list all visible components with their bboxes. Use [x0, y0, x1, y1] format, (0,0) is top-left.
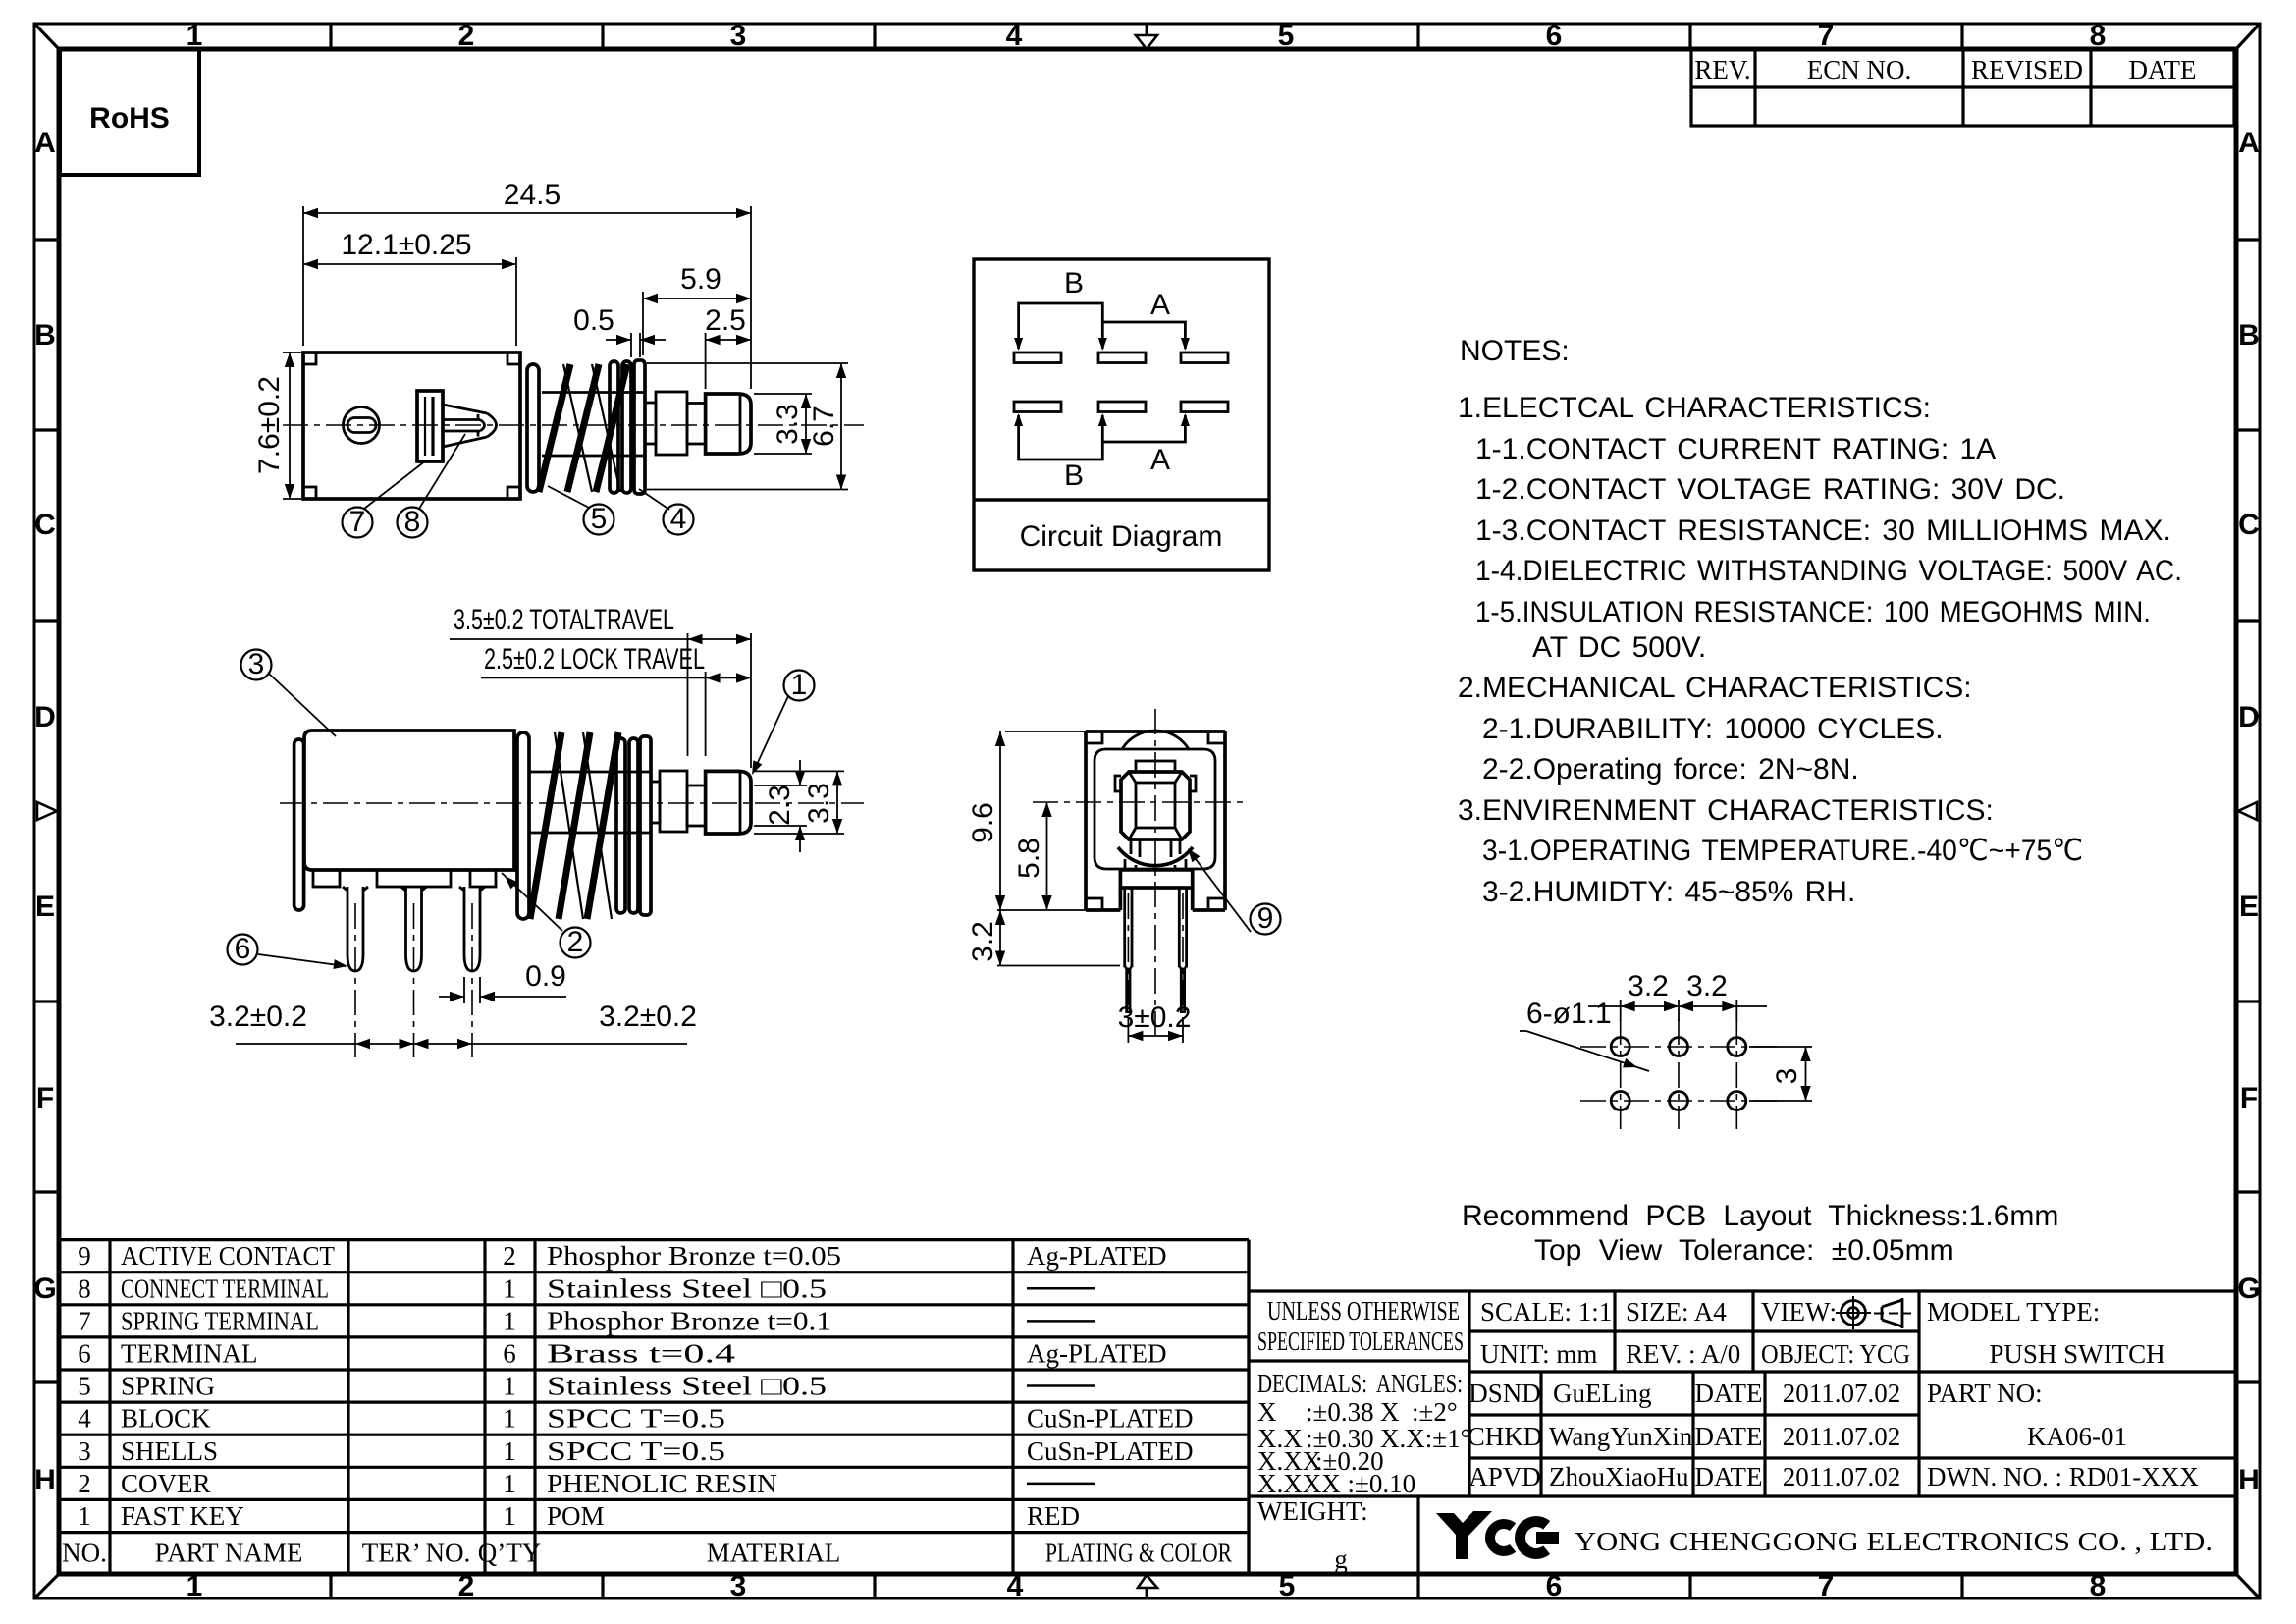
svg-text:9.6: 9.6	[967, 802, 999, 843]
svg-text:3.5±0.2 TOTALTRAVEL: 3.5±0.2 TOTALTRAVEL	[454, 604, 674, 636]
svg-text:A: A	[34, 127, 56, 159]
view 3 active contact arc (part 9)	[1118, 847, 1193, 866]
svg-text:FAST KEY: FAST KEY	[121, 1501, 244, 1531]
svg-text:VIEW:: VIEW:	[1761, 1297, 1837, 1326]
ref 2 cover leader	[561, 928, 591, 958]
svg-text:B: B	[2238, 319, 2260, 352]
svg-text:SPRING: SPRING	[121, 1372, 215, 1401]
BOM table grid	[59, 1240, 1249, 1574]
svg-text:7: 7	[1818, 1570, 1835, 1602]
svg-text:NO.: NO.	[62, 1539, 107, 1568]
svg-text:1.ELECTCAL CHARACTERISTICS:: 1.ELECTCAL CHARACTERISTICS:	[1458, 392, 1931, 424]
view 3 horizontal centerline	[1033, 801, 1247, 803]
svg-text:DSND: DSND	[1468, 1379, 1541, 1408]
svg-text:1: 1	[503, 1273, 516, 1303]
view 1 shaft hub	[645, 392, 706, 455]
view 3 corner marks	[1086, 731, 1225, 910]
svg-text:MATERIAL: MATERIAL	[707, 1539, 841, 1568]
view 1 shaft neck	[687, 404, 706, 445]
notes text block	[1458, 335, 2182, 908]
pcb recommendation text	[1462, 1200, 2058, 1267]
svg-text:C: C	[34, 509, 56, 541]
svg-text:7.6±0.2: 7.6±0.2	[253, 376, 286, 474]
svg-text:8: 8	[2090, 20, 2107, 52]
svg-text:1-1.CONTACT CURRENT RATING:: 1-1.CONTACT CURRENT RATING: 1A	[1475, 433, 1996, 465]
view 3 pins	[1125, 888, 1187, 1013]
svg-text:2: 2	[503, 1241, 516, 1271]
circuit diagram box	[974, 259, 1269, 570]
svg-text:3: 3	[78, 1436, 91, 1466]
svg-text:2: 2	[458, 20, 475, 52]
svg-text:E: E	[35, 891, 55, 923]
view 2 shaft hub	[651, 771, 706, 832]
svg-text:1-5.INSULATION RESISTANCE: 1: 1-5.INSULATION RESISTANCE: 100 MEGOHMS M…	[1475, 596, 2151, 628]
svg-text:X: X	[1380, 1397, 1400, 1427]
ref 5 spring leader	[584, 505, 614, 535]
svg-text:3-1.OPERATING TEMPERATURE.-40: 3-1.OPERATING TEMPERATURE.-40℃~+75℃	[1482, 835, 2083, 867]
svg-text:5: 5	[591, 503, 608, 535]
svg-text:POM: POM	[547, 1501, 605, 1531]
svg-text:SPRING TERMINAL: SPRING TERMINAL	[121, 1306, 319, 1335]
svg-text:G: G	[2237, 1272, 2260, 1305]
svg-text:ANGLES:: ANGLES:	[1376, 1369, 1463, 1398]
wire A top	[1102, 322, 1185, 349]
svg-text:PART NAME: PART NAME	[155, 1539, 303, 1568]
svg-text:9: 9	[1257, 902, 1274, 935]
svg-text:1: 1	[503, 1469, 516, 1498]
svg-text:8: 8	[78, 1273, 91, 1303]
svg-text:UNLESS OTHERWISE: UNLESS OTHERWISE	[1267, 1296, 1460, 1326]
svg-text:SPECIFIED TOLERANCES: SPECIFIED TOLERANCES	[1257, 1326, 1464, 1356]
centering mark bottom	[1138, 1575, 1157, 1598]
svg-text:4: 4	[1006, 20, 1023, 52]
svg-text:F: F	[2240, 1082, 2258, 1114]
svg-text:5: 5	[78, 1372, 91, 1401]
svg-text:3.3: 3.3	[803, 783, 835, 824]
view 3 button inner	[1136, 783, 1175, 828]
svg-text:TERMINAL: TERMINAL	[121, 1338, 257, 1368]
svg-text:3.2±0.2: 3.2±0.2	[209, 1001, 307, 1033]
svg-text:CONNECT TERMINAL: CONNECT TERMINAL	[121, 1273, 329, 1303]
svg-text:PUSH SWITCH: PUSH SWITCH	[1989, 1339, 2164, 1369]
svg-text:2011.07.02: 2011.07.02	[1783, 1422, 1901, 1451]
view 1 switch body (shells)	[303, 352, 520, 499]
svg-text:6: 6	[78, 1338, 91, 1368]
svg-text:NOTES:: NOTES:	[1460, 335, 1570, 367]
svg-text:RED: RED	[1027, 1501, 1080, 1531]
svg-text:Phosphor Bronze t=0.1: Phosphor Bronze t=0.1	[547, 1306, 831, 1335]
view 3 pedestal	[1120, 870, 1192, 888]
svg-text:DATE: DATE	[1695, 1422, 1763, 1451]
svg-text:3.2: 3.2	[1686, 970, 1728, 1002]
svg-text:Q’TY: Q’TY	[478, 1539, 541, 1568]
svg-text:8: 8	[2090, 1570, 2107, 1602]
svg-text:DATE: DATE	[1695, 1462, 1763, 1491]
svg-text:3.2: 3.2	[1628, 970, 1669, 1002]
svg-text:DWN. NO. : RD01-XXX: DWN. NO. : RD01-XXX	[1927, 1462, 2199, 1491]
svg-text:COVER: COVER	[121, 1469, 211, 1498]
contact pads row 2	[1014, 402, 1228, 412]
svg-text:2: 2	[567, 926, 584, 958]
svg-text:7: 7	[349, 506, 366, 538]
revision table	[1691, 49, 2234, 126]
svg-text:CuSn-PLATED: CuSn-PLATED	[1027, 1404, 1194, 1434]
svg-text:D: D	[34, 701, 56, 733]
svg-text:4: 4	[670, 503, 687, 535]
svg-text:PHENOLIC RESIN: PHENOLIC RESIN	[547, 1469, 777, 1498]
svg-text:1: 1	[503, 1436, 516, 1466]
view 2 push button	[706, 771, 751, 834]
svg-text:1-4.DIELECTRIC WITHSTANDING: 1-4.DIELECTRIC WITHSTANDING VOLTAGE: 500…	[1475, 555, 2182, 587]
svg-text:6: 6	[1546, 1570, 1563, 1602]
svg-text:5: 5	[1278, 20, 1295, 52]
view cone symbol	[1874, 1298, 1911, 1328]
svg-text:OBJECT: YCG: OBJECT: YCG	[1761, 1339, 1910, 1369]
wire A bottom	[1102, 415, 1185, 442]
svg-text:ACTIVE CONTACT: ACTIVE CONTACT	[121, 1241, 335, 1271]
view 3 button side ears	[1115, 776, 1121, 791]
svg-text:UNIT: mm: UNIT: mm	[1480, 1339, 1597, 1369]
centering mark left	[37, 802, 57, 820]
svg-text:B: B	[34, 319, 56, 352]
svg-text:5.9: 5.9	[680, 263, 721, 296]
svg-text:WEIGHT:: WEIGHT:	[1257, 1496, 1368, 1526]
svg-text:6: 6	[1546, 20, 1563, 52]
svg-text:3.2±0.2: 3.2±0.2	[599, 1001, 697, 1033]
svg-text:PART NO:: PART NO:	[1927, 1379, 2043, 1408]
view 2 cover plate (part 2)	[294, 739, 304, 910]
view 2 centerline	[280, 802, 864, 804]
svg-text:12.1±0.25: 12.1±0.25	[341, 229, 471, 261]
wire B bottom	[1019, 415, 1103, 460]
title block grid	[1249, 1240, 2236, 1574]
svg-text:24.5: 24.5	[504, 179, 561, 211]
svg-text:0.9: 0.9	[525, 960, 566, 993]
svg-text:1: 1	[503, 1404, 516, 1434]
svg-text:5.8: 5.8	[1013, 838, 1045, 879]
view 1 spring (part 5)	[539, 364, 646, 492]
view 3 body outline	[1086, 731, 1225, 910]
pcb holes	[1611, 1038, 1746, 1110]
third-angle symbol	[1836, 1296, 1871, 1329]
view 2 spring washer left	[517, 732, 529, 919]
svg-text:6: 6	[235, 933, 251, 965]
svg-text:SHELLS: SHELLS	[121, 1436, 218, 1466]
svg-text:Phosphor Bronze t=0.05: Phosphor Bronze t=0.05	[547, 1241, 841, 1271]
svg-text:C: C	[2238, 509, 2260, 541]
view 2 spring	[530, 732, 650, 919]
wire B top	[1019, 303, 1103, 349]
svg-text:3: 3	[1771, 1068, 1803, 1085]
view 1 push button	[706, 394, 751, 454]
svg-text:X: X	[1257, 1397, 1277, 1427]
svg-text:REVISED: REVISED	[1971, 55, 2083, 84]
view 2 shaft neck	[687, 785, 706, 826]
svg-text:B: B	[1064, 460, 1084, 492]
svg-text:H: H	[2238, 1464, 2260, 1496]
svg-text:2.MECHANICAL CHARACTERISTICS:: 2.MECHANICAL CHARACTERISTICS:	[1458, 672, 1972, 704]
svg-text:CHKD: CHKD	[1468, 1422, 1543, 1451]
svg-text:X.XXX :±0.10: X.XXX :±0.10	[1257, 1469, 1415, 1498]
svg-text:1: 1	[78, 1501, 91, 1531]
svg-text:Top View Tolerance: ±0.05m: Top View Tolerance: ±0.05mm	[1534, 1234, 1954, 1267]
svg-text:2: 2	[78, 1469, 91, 1498]
svg-text:D: D	[2238, 701, 2260, 733]
svg-text:SIZE: A4: SIZE: A4	[1626, 1297, 1727, 1326]
svg-text:Ag-PLATED: Ag-PLATED	[1027, 1338, 1167, 1368]
svg-text:3: 3	[730, 20, 747, 52]
view 2 terminals (part 6)	[343, 887, 368, 971]
svg-text:SPCC T=0.5: SPCC T=0.5	[547, 1404, 725, 1434]
svg-text:1-2.CONTACT VOLTAGE RATING:: 1-2.CONTACT VOLTAGE RATING: 30V DC.	[1475, 473, 2065, 506]
svg-text:DECIMALS:: DECIMALS:	[1257, 1369, 1367, 1398]
svg-text:WangYunXin: WangYunXin	[1549, 1422, 1693, 1451]
svg-text:8: 8	[404, 506, 421, 538]
svg-text:3.3: 3.3	[772, 404, 804, 445]
svg-text:MODEL TYPE:: MODEL TYPE:	[1927, 1297, 2100, 1326]
view 3 contact fins	[1125, 859, 1186, 870]
svg-text::±2°: :±2°	[1412, 1397, 1458, 1427]
svg-text:6-ø1.1: 6-ø1.1	[1526, 998, 1612, 1030]
svg-text:1-3.CONTACT RESISTANCE: 30: 1-3.CONTACT RESISTANCE: 30 MILLIOHMS MAX…	[1475, 514, 2171, 547]
svg-text:1: 1	[503, 1306, 516, 1335]
svg-text:1: 1	[503, 1372, 516, 1401]
centering mark top	[1136, 24, 1157, 49]
svg-text:g: g	[1334, 1544, 1348, 1574]
svg-text:2.5±0.2 LOCK TRAVEL: 2.5±0.2 LOCK TRAVEL	[484, 643, 705, 676]
svg-text:Stainless Steel □0.5: Stainless Steel □0.5	[547, 1372, 827, 1401]
svg-text:GuELing: GuELing	[1553, 1379, 1652, 1408]
svg-text::±0.38: :±0.38	[1306, 1397, 1374, 1427]
svg-text:REV. : A/0: REV. : A/0	[1626, 1339, 1740, 1369]
view 2 washer stack	[616, 736, 651, 915]
svg-text:ECN NO.: ECN NO.	[1807, 55, 1912, 84]
view 3 button outer	[1121, 772, 1190, 839]
svg-text:6.7: 6.7	[808, 406, 840, 447]
view 3 pin centerlines	[1127, 893, 1129, 1013]
svg-text:CuSn-PLATED: CuSn-PLATED	[1027, 1436, 1194, 1466]
view 3 button top tab	[1136, 761, 1175, 772]
ref 6 terminal leader	[228, 935, 258, 965]
svg-text:2.5: 2.5	[705, 304, 746, 337]
svg-text:F: F	[36, 1082, 54, 1114]
svg-text:YONG CHENGGONG ELECTRONICS: YONG CHENGGONG ELECTRONICS CO. , LTD.	[1575, 1527, 2213, 1556]
ref 9 active contact leader	[1251, 904, 1281, 935]
svg-text:SCALE: 1:1: SCALE: 1:1	[1480, 1297, 1612, 1326]
svg-text:TER’ NO.: TER’ NO.	[362, 1539, 470, 1568]
svg-text:REV.: REV.	[1694, 55, 1750, 84]
view 1 body corner marks	[303, 352, 520, 499]
svg-text:A: A	[1150, 289, 1170, 321]
ref 4 block leader	[664, 505, 694, 535]
svg-text:2011.07.02: 2011.07.02	[1783, 1462, 1901, 1491]
svg-text:E: E	[2239, 891, 2259, 923]
view 1 centerline	[283, 424, 864, 426]
svg-text:3.ENVIRENMENT CHARACTERISTICS: 3.ENVIRENMENT CHARACTERISTICS:	[1458, 794, 1994, 827]
svg-text:Brass t=0.4: Brass t=0.4	[547, 1338, 736, 1368]
svg-text:A: A	[2238, 127, 2260, 159]
svg-text:G: G	[33, 1272, 56, 1305]
svg-text:PLATING & COLOR: PLATING & COLOR	[1045, 1539, 1232, 1568]
svg-text:2.3: 2.3	[764, 785, 796, 826]
view 1 rivet circle	[344, 407, 380, 444]
svg-text:1: 1	[503, 1501, 516, 1531]
view 2 terminal bosses	[313, 870, 496, 887]
svg-text:X.X:±1°: X.X:±1°	[1380, 1424, 1470, 1453]
svg-text:B: B	[1064, 267, 1084, 299]
svg-text:RoHS: RoHS	[89, 102, 170, 135]
view 3 inner frame	[1095, 749, 1215, 869]
svg-text:Recommend PCB Layout Thickn: Recommend PCB Layout Thickness:1.6mm	[1462, 1200, 2058, 1232]
svg-text:7: 7	[78, 1306, 91, 1335]
svg-text:1: 1	[791, 669, 808, 701]
svg-text:2-2.Operating force: 2N~8N.: 2-2.Operating force: 2N~8N.	[1482, 753, 1859, 785]
svg-text:DATE: DATE	[1695, 1379, 1763, 1408]
svg-text:H: H	[34, 1464, 56, 1496]
view 1 washer stack (part 4 block)	[610, 360, 645, 494]
svg-text:AT DC 500V.: AT DC 500V.	[1532, 631, 1706, 664]
view 3 dome arc	[1122, 731, 1189, 749]
ref 1 fast key leader	[784, 671, 815, 701]
svg-text:SPCC T=0.5: SPCC T=0.5	[547, 1436, 725, 1466]
svg-text:Circuit Diagram: Circuit Diagram	[1020, 520, 1223, 553]
svg-text:9: 9	[78, 1241, 91, 1271]
svg-text:7: 7	[1818, 20, 1835, 52]
svg-text:Stainless Steel □0.5: Stainless Steel □0.5	[547, 1273, 827, 1303]
svg-text:ZhouXiaoHu: ZhouXiaoHu	[1549, 1462, 1689, 1491]
svg-text:4: 4	[78, 1404, 91, 1434]
svg-text:KA06-01: KA06-01	[2027, 1422, 2127, 1451]
svg-text:6: 6	[503, 1338, 516, 1368]
ref 8 connect terminal pin	[398, 508, 428, 538]
pcb hole centerlines	[1580, 1046, 1777, 1048]
svg-text:3.2: 3.2	[967, 921, 999, 962]
ref 3 shells leader	[241, 650, 272, 680]
ref 7 fast key holder	[343, 508, 373, 538]
svg-text:APVD: APVD	[1468, 1462, 1541, 1491]
view 1 fast key (part 1)	[417, 391, 497, 461]
svg-text:Ag-PLATED: Ag-PLATED	[1027, 1241, 1167, 1271]
svg-text:2-1.DURABILITY: 10000 CYCLES: 2-1.DURABILITY: 10000 CYCLES.	[1482, 713, 1944, 745]
company logo YCG	[1436, 1511, 1559, 1559]
view 1 spring washer left	[527, 364, 539, 492]
view 2 body (part 3 shells)	[304, 731, 514, 870]
centering mark right	[2238, 802, 2257, 820]
svg-text:0.5: 0.5	[573, 304, 614, 337]
svg-text:2011.07.02: 2011.07.02	[1783, 1379, 1901, 1408]
contact pads row 1	[1014, 352, 1228, 363]
view 3 neck below button	[1130, 839, 1133, 854]
svg-text:3: 3	[248, 648, 265, 680]
svg-text:BLOCK: BLOCK	[121, 1404, 211, 1434]
svg-text:DATE: DATE	[2129, 55, 2197, 84]
svg-text:5: 5	[1279, 1570, 1296, 1602]
svg-text:3-2.HUMIDTY: 45~85% RH.: 3-2.HUMIDTY: 45~85% RH.	[1482, 876, 1855, 908]
svg-text:A: A	[1150, 444, 1170, 476]
RoHS box	[60, 49, 199, 175]
view 3 vertical centerline	[1154, 709, 1156, 1043]
